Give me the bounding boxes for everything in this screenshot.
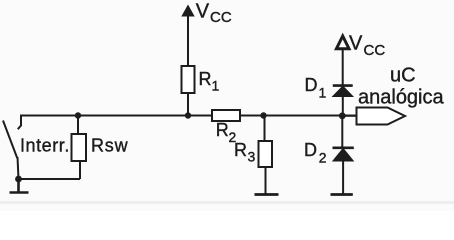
wire: Vcc stem to D1 cathode	[342, 49, 344, 85]
label R3	[234, 140, 256, 165]
wire: main horizontal net, left segment	[21, 115, 212, 117]
wire: R3 top lead	[264, 116, 266, 142]
ground (below R3)	[255, 193, 279, 196]
svg-text:Interr.: Interr.	[20, 136, 70, 156]
svg-text:analógica: analógica	[358, 87, 445, 109]
wire: node to D2 cathode	[341, 116, 343, 148]
svg-text:V: V	[349, 33, 363, 55]
svg-text:D: D	[305, 75, 318, 95]
node: junction dot at R3 top	[260, 112, 266, 118]
resistor R3	[259, 141, 273, 167]
output tag to uC (pointer)	[357, 108, 406, 125]
svg-text:D: D	[304, 140, 317, 160]
power VCC arrow (left)	[181, 5, 194, 17]
svg-text:R: R	[199, 69, 212, 89]
resistor R1	[182, 66, 195, 93]
svg-text:1: 1	[212, 78, 220, 94]
svg-text:CC: CC	[364, 42, 386, 59]
switch Interr. top fixed contact lead	[18, 115, 22, 130]
wire: node to output tag	[342, 115, 356, 117]
label VCC (left)	[196, 1, 232, 27]
wire: Vcc stem to R1	[187, 15, 189, 66]
ground (below D2)	[331, 193, 353, 196]
node: junction dot at R1 bottom	[185, 112, 191, 118]
svg-text:Rsw: Rsw	[91, 136, 129, 156]
svg-text:CC: CC	[210, 9, 232, 26]
diode D1 (cathode bar)	[333, 84, 353, 87]
wire: D2 anode lead to ground	[342, 161, 344, 194]
wire: R1 bottom lead	[187, 93, 189, 116]
label D2	[304, 140, 327, 165]
svg-text:V: V	[196, 1, 210, 23]
wire: R3 bottom lead	[265, 167, 267, 194]
wire: Rsw top lead	[77, 116, 79, 135]
svg-text:R: R	[234, 140, 247, 160]
label VCC (right)	[349, 33, 385, 60]
svg-text:3: 3	[248, 149, 256, 165]
switch Interr. blade (open)	[3, 121, 17, 159]
ground (left, below switch)	[10, 179, 29, 193]
svg-text:2: 2	[319, 149, 327, 165]
node: junction dot analog node	[339, 112, 346, 119]
resistor R2	[212, 110, 240, 121]
scan streak artifact at bottom	[0, 201, 454, 204]
label R2	[216, 120, 237, 145]
label D1	[305, 75, 327, 100]
wire: bottom-left horizontal (switch to Rsw bottom)	[19, 178, 81, 180]
node: junction dot at Rsw top	[75, 112, 81, 118]
label R1	[199, 69, 220, 94]
diode D2 (triangle, pointing up)	[333, 149, 352, 161]
svg-text:R: R	[216, 120, 229, 140]
switch Interr. bottom lead	[18, 157, 19, 179]
svg-text:1: 1	[319, 84, 327, 100]
wire: main horizontal net, right segment	[240, 115, 356, 117]
power VCC arrow (right, open triangle)	[336, 36, 349, 49]
svg-text:uC: uC	[390, 65, 416, 87]
resistor Rsw	[72, 134, 87, 161]
diode D1 (triangle, pointing up)	[333, 87, 352, 97]
wire: Rsw bottom lead	[79, 161, 81, 179]
wire: D1 anode lead to node	[342, 96, 344, 116]
diode D2 (cathode bar)	[333, 147, 354, 150]
node: junction dot switch/ground bottom	[15, 176, 22, 183]
